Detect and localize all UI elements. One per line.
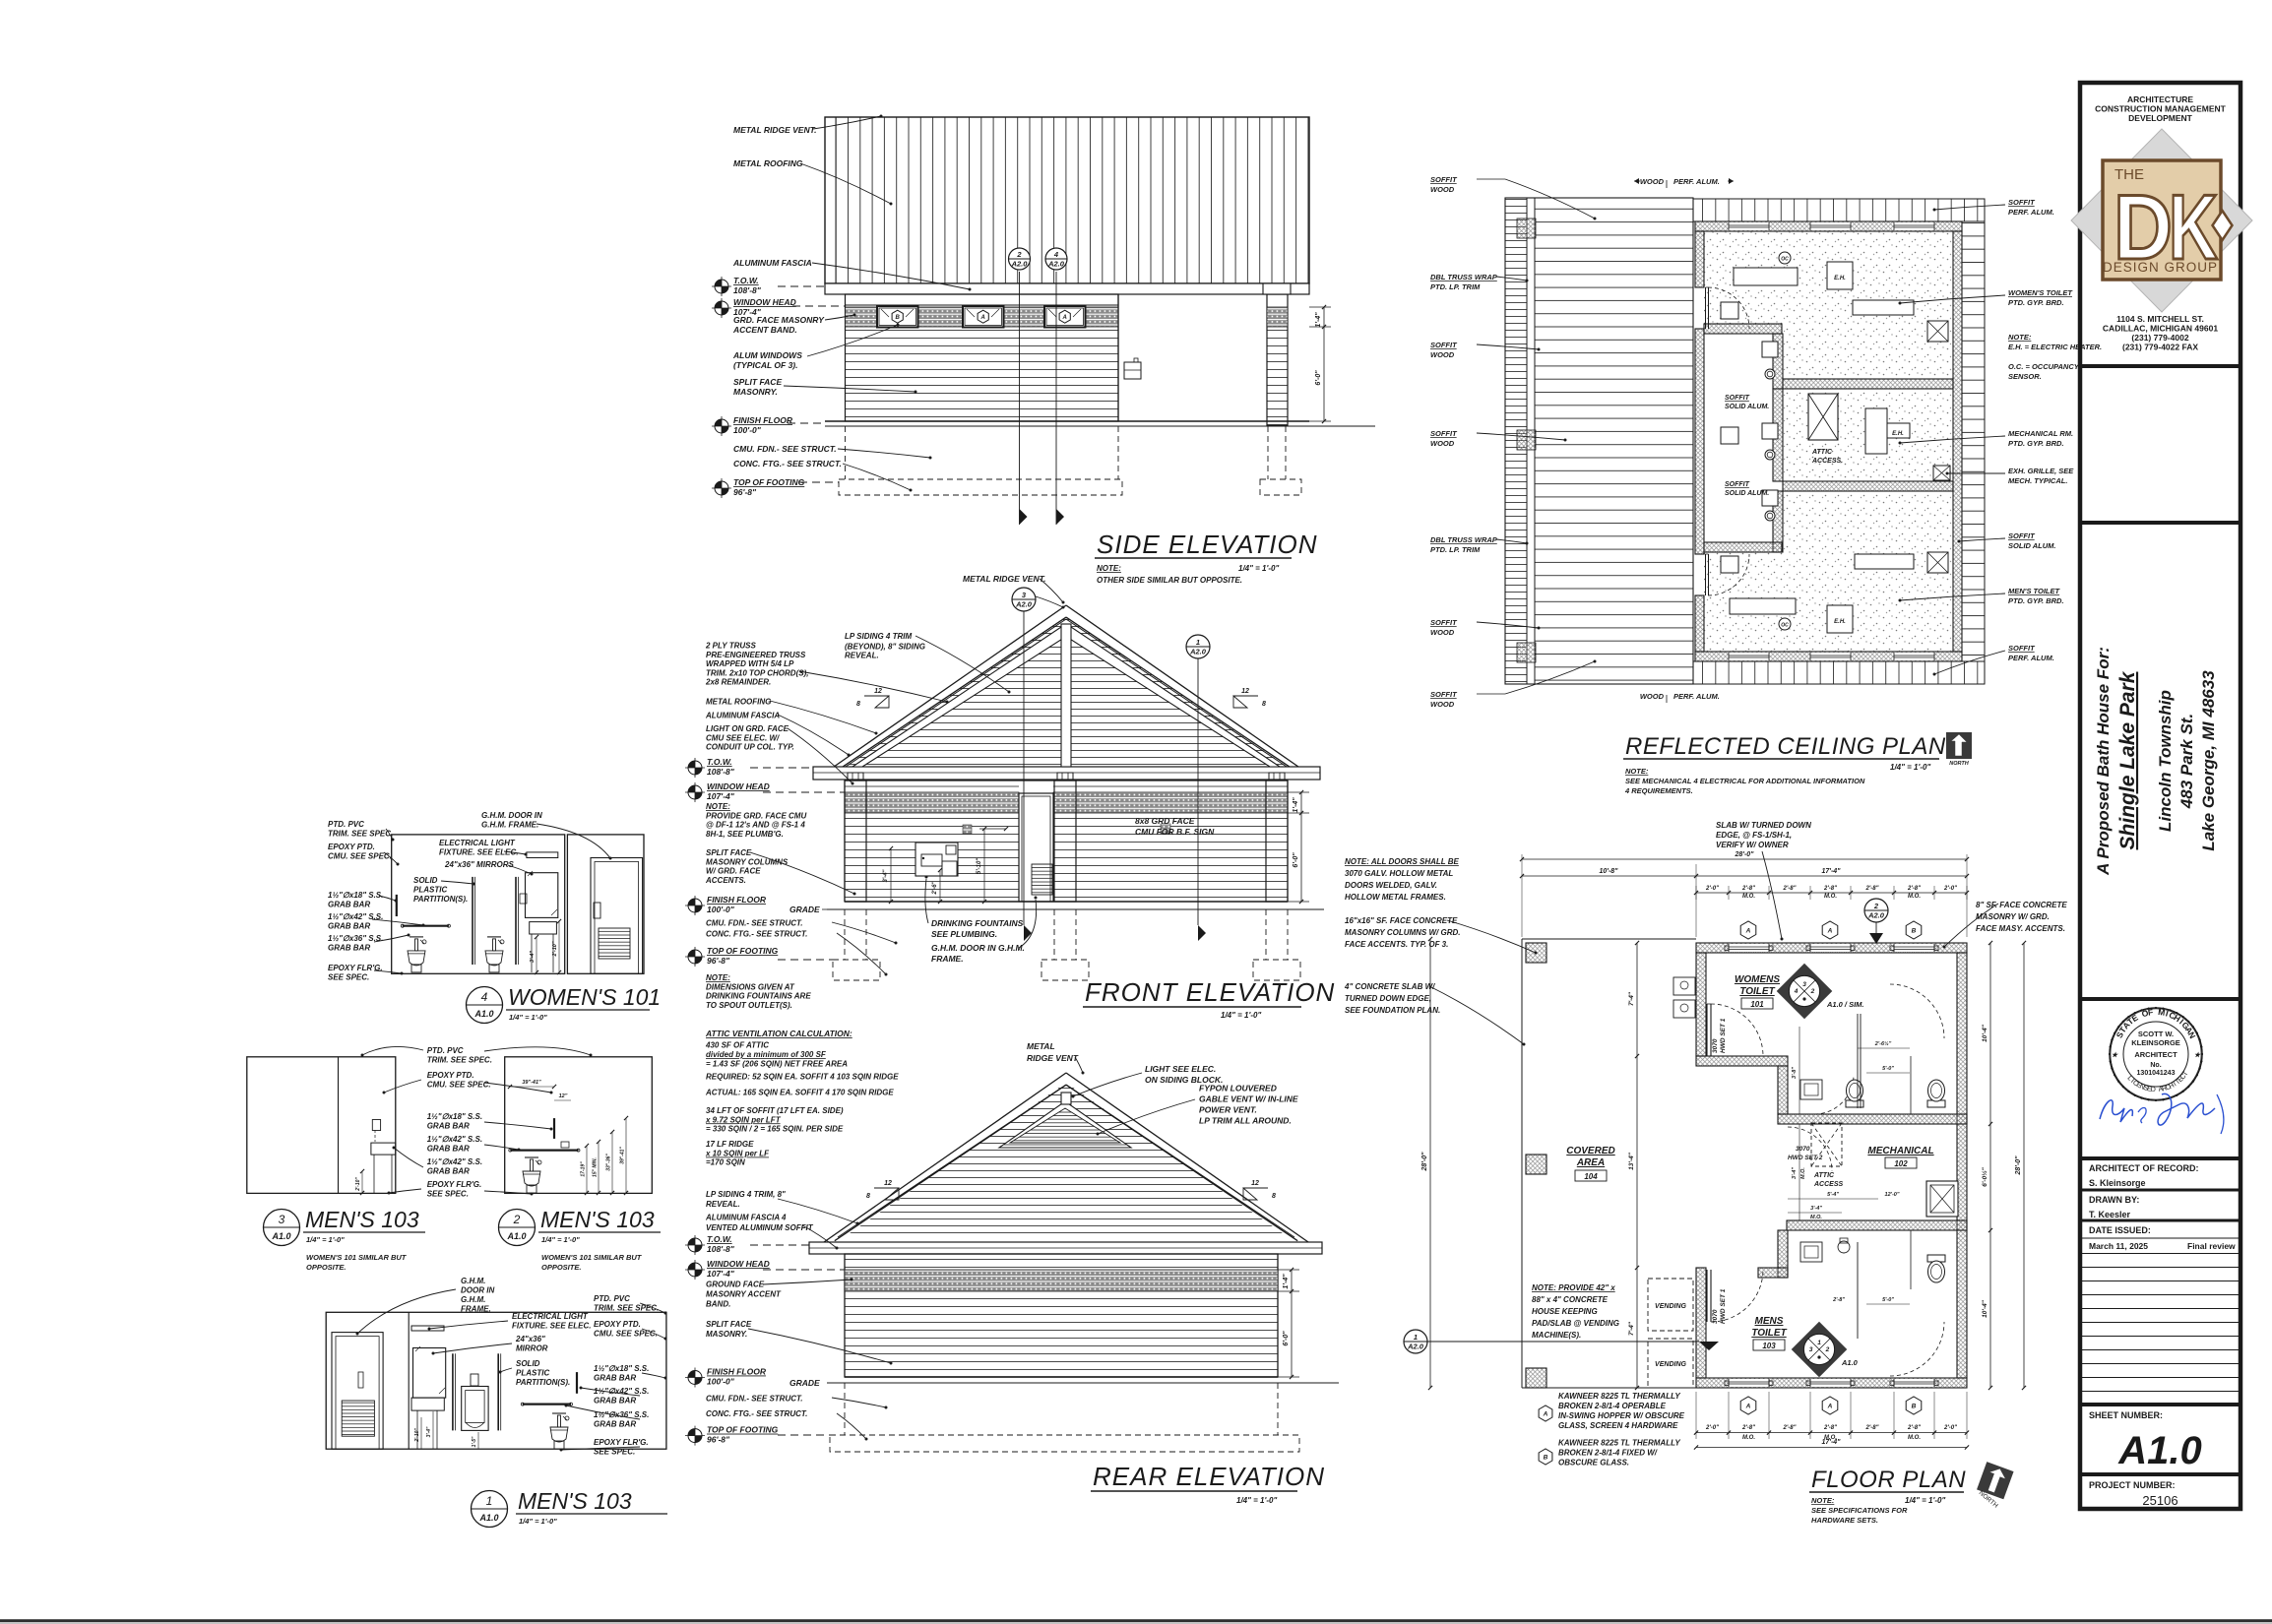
svg-text:MASONRY COLUMNS: MASONRY COLUMNS xyxy=(706,857,789,866)
svg-text:(231) 779-4022 FAX: (231) 779-4022 FAX xyxy=(2122,343,2198,352)
svg-text:DRAWN BY:: DRAWN BY: xyxy=(2089,1195,2139,1205)
svg-text:483 Park St.: 483 Park St. xyxy=(2177,714,2196,809)
svg-text:B: B xyxy=(1912,927,1917,934)
svg-text:2'-8": 2'-8" xyxy=(1741,886,1755,892)
svg-text:SOLID ALUM.: SOLID ALUM. xyxy=(1725,404,1769,410)
svg-text:2'-10": 2'-10" xyxy=(414,1428,420,1443)
svg-text:PARTITION(S).: PARTITION(S). xyxy=(516,1378,570,1387)
svg-text:FRONT ELEVATION: FRONT ELEVATION xyxy=(1085,977,1335,1007)
svg-text:2: 2 xyxy=(1825,1346,1830,1353)
svg-text:CONDUIT UP COL. TYP.: CONDUIT UP COL. TYP. xyxy=(706,743,794,752)
svg-text:G.H.M.: G.H.M. xyxy=(461,1295,485,1304)
svg-text:PRE-ENGINEERED TRUSS: PRE-ENGINEERED TRUSS xyxy=(706,651,806,659)
svg-text:AREA: AREA xyxy=(1576,1157,1605,1168)
svg-text:MASONRY COLUMNS W/ GRD.: MASONRY COLUMNS W/ GRD. xyxy=(1345,928,1460,937)
svg-text:OC: OC xyxy=(1781,257,1789,263)
svg-text:8: 8 xyxy=(1272,1193,1276,1200)
svg-text:ACTUAL: 165 SQIN EA. SOFFIT 4: ACTUAL: 165 SQIN EA. SOFFIT 4 170 SQIN R… xyxy=(705,1089,894,1097)
svg-text:IN-SWING HOPPER W/ OBSCURE: IN-SWING HOPPER W/ OBSCURE xyxy=(1558,1411,1685,1420)
svg-text:12: 12 xyxy=(874,688,882,695)
svg-text:100'-0": 100'-0" xyxy=(707,905,735,914)
svg-text:GRAB BAR: GRAB BAR xyxy=(594,1420,636,1429)
svg-text:SEE SPEC.: SEE SPEC. xyxy=(328,973,369,982)
svg-text:A2.0: A2.0 xyxy=(1407,1343,1424,1351)
svg-text:CMU. SEE SPEC.: CMU. SEE SPEC. xyxy=(427,1081,491,1090)
svg-text:PTD. LP. TRIM: PTD. LP. TRIM xyxy=(1430,282,1481,291)
svg-text:RIDGE VENT: RIDGE VENT xyxy=(1027,1053,1079,1063)
svg-text:OTHER SIDE SIMILAR BUT OPPOSIT: OTHER SIDE SIMILAR BUT OPPOSITE. xyxy=(1097,576,1242,585)
svg-text:SOFFIT: SOFFIT xyxy=(2008,198,2036,207)
svg-text:SOFFIT: SOFFIT xyxy=(1430,429,1458,438)
svg-text:EDGE, @ FS-1/SH-1,: EDGE, @ FS-1/SH-1, xyxy=(1716,831,1792,840)
svg-text:CADILLAC, MICHIGAN 49601: CADILLAC, MICHIGAN 49601 xyxy=(2103,324,2218,334)
svg-text:12": 12" xyxy=(559,1093,568,1099)
svg-text:NOTE:: NOTE: xyxy=(1811,1496,1835,1505)
svg-text:2: 2 xyxy=(1810,988,1815,995)
svg-text:NOTE:: NOTE: xyxy=(706,802,730,811)
svg-text:D: D xyxy=(2151,1087,2157,1093)
svg-text:1/4" = 1'-0": 1/4" = 1'-0" xyxy=(519,1517,557,1526)
svg-text:KLEINSORGE: KLEINSORGE xyxy=(2131,1038,2180,1047)
svg-text:PAD/SLAB @ VENDING: PAD/SLAB @ VENDING xyxy=(1532,1319,1619,1328)
svg-text:1: 1 xyxy=(1414,1333,1418,1342)
svg-text:TRIM. SEE SPEC.: TRIM. SEE SPEC. xyxy=(594,1304,659,1313)
svg-text:96'-8": 96'-8" xyxy=(707,956,730,966)
svg-text:PTD. GYP. BRD.: PTD. GYP. BRD. xyxy=(2008,596,2064,605)
svg-text:EPOXY FLR'G.: EPOXY FLR'G. xyxy=(594,1438,649,1447)
svg-text:2'-0": 2'-0" xyxy=(1943,886,1957,892)
svg-text:12'-0": 12'-0" xyxy=(1885,1192,1900,1198)
svg-text:2'-8": 2'-8" xyxy=(1823,1425,1837,1431)
svg-text:33"-36": 33"-36" xyxy=(606,1154,612,1171)
svg-text:1: 1 xyxy=(486,1494,493,1508)
svg-text:TURNED DOWN EDGE,: TURNED DOWN EDGE, xyxy=(1345,994,1431,1003)
svg-text:MASONRY W/ GRD.: MASONRY W/ GRD. xyxy=(1976,912,2050,921)
svg-text:6'-0½": 6'-0½" xyxy=(1981,1166,1988,1186)
svg-text:A1.0 / SIM.: A1.0 / SIM. xyxy=(1826,1000,1864,1009)
svg-text:S. Kleinsorge: S. Kleinsorge xyxy=(2089,1178,2146,1188)
svg-text:PERF. ALUM.: PERF. ALUM. xyxy=(2008,208,2054,217)
svg-text:HOLLOW METAL FRAMES.: HOLLOW METAL FRAMES. xyxy=(1345,893,1446,902)
svg-text:2: 2 xyxy=(1016,250,1022,259)
svg-text:5'-0": 5'-0" xyxy=(1882,1066,1894,1072)
svg-text:3: 3 xyxy=(1802,981,1806,988)
svg-text:DEVELOPMENT: DEVELOPMENT xyxy=(2128,113,2193,123)
svg-text:10'-4": 10'-4" xyxy=(1982,1299,1988,1318)
svg-text:FIXTURE. SEE ELEC.: FIXTURE. SEE ELEC. xyxy=(439,848,518,857)
svg-text:1/4" = 1'-0": 1/4" = 1'-0" xyxy=(541,1235,580,1244)
svg-text:REQUIRED: 52 SQIN EA. SOFFIT: REQUIRED: 52 SQIN EA. SOFFIT 4 103 SQIN … xyxy=(706,1073,899,1082)
svg-text:A1.0: A1.0 xyxy=(478,1513,498,1523)
svg-text:1'-4": 1'-4" xyxy=(1293,797,1299,813)
svg-text:1: 1 xyxy=(1817,1340,1821,1346)
svg-text:28'-0": 28'-0" xyxy=(1421,1152,1428,1172)
svg-text:4" CONCRETE SLAB W/: 4" CONCRETE SLAB W/ xyxy=(1344,982,1435,991)
svg-text:3'-4": 3'-4" xyxy=(883,869,889,882)
svg-text:SOFFIT: SOFFIT xyxy=(1725,395,1750,402)
svg-text:WOMEN'S TOILET: WOMEN'S TOILET xyxy=(2008,288,2073,297)
svg-text:REVEAL.: REVEAL. xyxy=(845,652,879,660)
svg-text:SOFFIT: SOFFIT xyxy=(2008,644,2036,653)
svg-text:CMU. SEE SPEC.: CMU. SEE SPEC. xyxy=(328,852,392,861)
svg-text:5'-0": 5'-0" xyxy=(1882,1297,1894,1303)
svg-text:PTD. PVC: PTD. PVC xyxy=(594,1294,630,1303)
svg-text:WOMEN'S 101: WOMEN'S 101 xyxy=(508,984,661,1010)
svg-text:TOP OF FOOTING: TOP OF FOOTING xyxy=(707,946,779,956)
svg-text:W/ GRD. FACE: W/ GRD. FACE xyxy=(706,867,761,876)
svg-text:A: A xyxy=(1827,927,1833,934)
svg-text:EPOXY PTD.: EPOXY PTD. xyxy=(427,1071,474,1080)
svg-text:PTD. GYP. BRD.: PTD. GYP. BRD. xyxy=(2008,298,2064,307)
svg-text:WOOD: WOOD xyxy=(1430,628,1455,637)
svg-text:SEE SPEC.: SEE SPEC. xyxy=(594,1448,635,1457)
svg-text:ALUMINUM FASCIA: ALUMINUM FASCIA xyxy=(705,711,780,719)
svg-text:T.O.W.: T.O.W. xyxy=(707,757,732,767)
svg-text:SOLID ALUM.: SOLID ALUM. xyxy=(2008,541,2055,550)
svg-text:104: 104 xyxy=(1584,1172,1598,1181)
svg-text:6'-0": 6'-0" xyxy=(1293,852,1299,868)
svg-text:4: 4 xyxy=(481,990,488,1004)
svg-text:8" SF. FACE CONCRETE: 8" SF. FACE CONCRETE xyxy=(1976,901,2067,909)
svg-text:A: A xyxy=(980,315,985,321)
svg-text:FRAME.: FRAME. xyxy=(931,954,964,964)
svg-text:4: 4 xyxy=(1794,988,1799,995)
svg-text:2x8 REMAINDER.: 2x8 REMAINDER. xyxy=(705,678,771,687)
svg-text:SOFFIT: SOFFIT xyxy=(2008,531,2036,540)
svg-text:WOOD: WOOD xyxy=(1430,439,1455,448)
svg-text:28'-0": 28'-0" xyxy=(2015,1156,2022,1176)
svg-text:MEN'S 103: MEN'S 103 xyxy=(540,1207,655,1232)
svg-text:SEE SPECIFICATIONS FOR: SEE SPECIFICATIONS FOR xyxy=(1811,1506,1908,1515)
svg-text:LIGHT SEE ELEC.: LIGHT SEE ELEC. xyxy=(1145,1064,1216,1074)
svg-text:SOFFIT: SOFFIT xyxy=(1430,341,1458,349)
svg-text:2'-8": 2'-8" xyxy=(1741,1425,1755,1431)
svg-text:8: 8 xyxy=(1262,701,1266,708)
svg-text:17-19": 17-19" xyxy=(581,1161,587,1177)
svg-text:VENDING: VENDING xyxy=(1655,1361,1686,1368)
svg-text:FINISH FLOOR: FINISH FLOOR xyxy=(707,895,767,905)
svg-text:CMU. FDN.- SEE STRUCT.: CMU. FDN.- SEE STRUCT. xyxy=(706,919,803,928)
svg-text:1'-4": 1'-4" xyxy=(1283,1274,1290,1289)
svg-text:VENTED ALUMINUM SOFFIT: VENTED ALUMINUM SOFFIT xyxy=(706,1223,814,1232)
svg-text:B: B xyxy=(1912,1403,1917,1409)
svg-text:3'-4": 3'-4" xyxy=(1792,1167,1798,1179)
svg-text:METAL ROOFING: METAL ROOFING xyxy=(733,158,803,168)
svg-text:@ DF-1 12's AND @ FS-1 4: @ DF-1 12's AND @ FS-1 4 xyxy=(706,821,805,830)
svg-text:SEE MECHANICAL 4 ELECTRICAL FO: SEE MECHANICAL 4 ELECTRICAL FOR ADDITION… xyxy=(1625,777,1865,785)
svg-text:OBSCURE GLASS.: OBSCURE GLASS. xyxy=(1558,1458,1629,1467)
svg-text:divided by a minimum of 300 SF: divided by a minimum of 300 SF xyxy=(706,1050,827,1059)
svg-text:OPPOSITE.: OPPOSITE. xyxy=(306,1263,346,1272)
svg-text:2'-0": 2'-0" xyxy=(1943,1425,1957,1431)
svg-text:1/4" = 1'-0": 1/4" = 1'-0" xyxy=(306,1235,345,1244)
svg-text:SLAB W/ TURNED DOWN: SLAB W/ TURNED DOWN xyxy=(1716,821,1811,830)
svg-text:MASONRY ACCENT: MASONRY ACCENT xyxy=(706,1290,782,1299)
svg-text:B: B xyxy=(1544,1454,1548,1461)
svg-text:3'-4": 3'-4" xyxy=(1810,1206,1822,1212)
svg-text:1½"∅x42" S.S.: 1½"∅x42" S.S. xyxy=(427,1135,482,1144)
svg-text:GRAB BAR: GRAB BAR xyxy=(594,1397,636,1405)
svg-text:MACHINE(S).: MACHINE(S). xyxy=(1532,1331,1581,1340)
svg-text:G.H.M. FRAME.: G.H.M. FRAME. xyxy=(481,821,538,830)
svg-text:MENS: MENS xyxy=(1755,1316,1784,1327)
svg-text:SOFFIT: SOFFIT xyxy=(1430,690,1458,699)
svg-text:MEN'S TOILET: MEN'S TOILET xyxy=(2008,587,2060,595)
svg-text:GRAB BAR: GRAB BAR xyxy=(594,1374,636,1383)
svg-text:NORTH: NORTH xyxy=(1949,761,1969,767)
svg-text:3070: 3070 xyxy=(1712,1309,1719,1324)
svg-text:WINDOW HEAD: WINDOW HEAD xyxy=(707,781,770,791)
svg-text:100'-0": 100'-0" xyxy=(733,425,762,435)
svg-text:EPOXY FLR'G.: EPOXY FLR'G. xyxy=(427,1180,482,1189)
svg-text:3070: 3070 xyxy=(1796,1146,1810,1153)
svg-text:E.H.: E.H. xyxy=(1834,276,1846,281)
svg-text:CMU. FDN.- SEE STRUCT.: CMU. FDN.- SEE STRUCT. xyxy=(733,444,837,454)
svg-text:E.H. = ELECTRIC HEATER.: E.H. = ELECTRIC HEATER. xyxy=(2008,343,2102,351)
svg-text:SPLIT FACE: SPLIT FACE xyxy=(706,848,752,857)
svg-text:8H-1, SEE PLUMB'G.: 8H-1, SEE PLUMB'G. xyxy=(706,830,784,839)
svg-text:WOMENS: WOMENS xyxy=(1735,974,1780,985)
svg-text:7'-4": 7'-4" xyxy=(1628,991,1635,1006)
svg-text:6'-0": 6'-0" xyxy=(1315,370,1322,386)
svg-text:PTD. GYP. BRD.: PTD. GYP. BRD. xyxy=(2008,439,2064,448)
svg-text:1½"∅x36" S.S.: 1½"∅x36" S.S. xyxy=(594,1410,649,1419)
svg-text:24"x36" MIRRORS: 24"x36" MIRRORS xyxy=(444,860,514,869)
svg-text:GABLE VENT W/ IN-LINE: GABLE VENT W/ IN-LINE xyxy=(1199,1094,1298,1104)
svg-text:39"-41": 39"-41" xyxy=(620,1147,626,1164)
svg-text:CMU FOR B.F. SIGN: CMU FOR B.F. SIGN xyxy=(1135,827,1215,837)
svg-text:24"x36": 24"x36" xyxy=(515,1335,545,1343)
svg-text:CMU. FDN.- SEE STRUCT.: CMU. FDN.- SEE STRUCT. xyxy=(706,1394,803,1403)
svg-text:A1.0: A1.0 xyxy=(473,1009,493,1019)
svg-text:A: A xyxy=(1745,1403,1751,1409)
svg-text:TO SPOUT OUTLET(S).: TO SPOUT OUTLET(S). xyxy=(706,1001,792,1010)
svg-text:A2.0: A2.0 xyxy=(1011,260,1029,269)
svg-text:MECHANICAL RM.: MECHANICAL RM. xyxy=(2008,429,2073,438)
svg-text:MEN'S 103: MEN'S 103 xyxy=(518,1488,632,1514)
svg-text:EXH. GRILLE, SEE: EXH. GRILLE, SEE xyxy=(2008,467,2074,475)
svg-text:O.C. = OCCUPANCY: O.C. = OCCUPANCY xyxy=(2008,362,2080,371)
svg-text:FACE ACCENTS. TYP. OF 3.: FACE ACCENTS. TYP. OF 3. xyxy=(1345,940,1448,949)
svg-text:3070: 3070 xyxy=(1712,1038,1719,1053)
svg-text:2'-8": 2'-8" xyxy=(1832,1297,1845,1303)
svg-text:OPPOSITE.: OPPOSITE. xyxy=(541,1263,581,1272)
svg-text:WRAPPED WITH 5/4 LP: WRAPPED WITH 5/4 LP xyxy=(706,659,794,668)
svg-text:LP SIDING 4 TRIM: LP SIDING 4 TRIM xyxy=(845,632,912,641)
svg-text:2'-0": 2'-0" xyxy=(1705,1425,1719,1431)
svg-text:NOTE:: NOTE: xyxy=(2008,333,2032,342)
svg-text:(TYPICAL OF 3).: (TYPICAL OF 3). xyxy=(733,360,798,370)
svg-text:108'-8": 108'-8" xyxy=(733,285,762,295)
svg-text:A1.0: A1.0 xyxy=(2117,1429,2202,1472)
svg-text:2: 2 xyxy=(513,1213,521,1226)
svg-text:SPLIT FACE: SPLIT FACE xyxy=(733,377,782,387)
svg-text:M.O.: M.O. xyxy=(1908,894,1921,900)
svg-text:1/4" = 1'-0": 1/4" = 1'-0" xyxy=(1236,1496,1277,1505)
svg-text:CMU SEE ELEC. W/: CMU SEE ELEC. W/ xyxy=(706,733,780,742)
svg-text:17'-4": 17'-4" xyxy=(1822,868,1842,875)
svg-text:March 11, 2025: March 11, 2025 xyxy=(2089,1241,2148,1251)
svg-text:2'-6½": 2'-6½" xyxy=(1874,1040,1892,1047)
svg-text:LP SIDING 4 TRIM, 8": LP SIDING 4 TRIM, 8" xyxy=(706,1190,786,1199)
svg-text:SOLID: SOLID xyxy=(516,1359,540,1368)
svg-text:SIDE ELEVATION: SIDE ELEVATION xyxy=(1097,530,1317,559)
svg-text:TRIM. SEE SPEC.: TRIM. SEE SPEC. xyxy=(427,1056,492,1065)
svg-text:WINDOW HEAD: WINDOW HEAD xyxy=(733,297,796,307)
svg-text:EPOXY PTD.: EPOXY PTD. xyxy=(594,1320,641,1329)
svg-text:=170 SQIN: =170 SQIN xyxy=(706,1158,745,1167)
svg-text:1/4" = 1'-0": 1/4" = 1'-0" xyxy=(1221,1011,1261,1020)
svg-text:3'-4": 3'-4" xyxy=(530,951,536,963)
svg-text:SOLID ALUM.: SOLID ALUM. xyxy=(1725,490,1769,497)
svg-text:1'-5": 1'-5" xyxy=(472,1436,477,1447)
svg-text:DOORS WELDED, GALV.: DOORS WELDED, GALV. xyxy=(1345,881,1437,890)
svg-text:8x8 GRD FACE: 8x8 GRD FACE xyxy=(1135,816,1195,826)
svg-text:PTD. LP. TRIM: PTD. LP. TRIM xyxy=(1430,545,1481,554)
svg-text:107'-4": 107'-4" xyxy=(707,1269,735,1279)
svg-text:6'-0": 6'-0" xyxy=(1283,1331,1290,1346)
svg-text:ACCENT BAND.: ACCENT BAND. xyxy=(732,325,797,335)
svg-text:1: 1 xyxy=(1196,638,1200,647)
svg-text:2'-6": 2'-6" xyxy=(932,881,938,895)
svg-text:M.O.: M.O. xyxy=(1742,894,1755,900)
svg-text:2'-8": 2'-8" xyxy=(1907,1425,1921,1431)
svg-text:SPLIT FACE: SPLIT FACE xyxy=(706,1320,752,1329)
svg-text:ACCESS: ACCESS xyxy=(1813,1181,1844,1188)
svg-text:GRADE: GRADE xyxy=(789,1378,820,1388)
svg-text:PARTITION(S).: PARTITION(S). xyxy=(413,895,468,904)
svg-text:MASONRY.: MASONRY. xyxy=(733,387,778,397)
svg-text:TOP OF FOOTING: TOP OF FOOTING xyxy=(733,477,805,487)
svg-text:GRAB BAR: GRAB BAR xyxy=(427,1167,470,1176)
svg-text:BROKEN 2-8/1-4 FIXED W/: BROKEN 2-8/1-4 FIXED W/ xyxy=(1558,1448,1658,1457)
svg-text:A Proposed Bath House For:: A Proposed Bath House For: xyxy=(2094,647,2113,876)
svg-text:KAWNEER 8225 TL THERMALLY: KAWNEER 8225 TL THERMALLY xyxy=(1558,1392,1680,1401)
svg-text:M.O.: M.O. xyxy=(1824,894,1837,900)
svg-text:103: 103 xyxy=(1762,1342,1776,1350)
svg-text:PLASTIC: PLASTIC xyxy=(413,886,447,895)
svg-text:GLASS, SCREEN 4 HARDWARE: GLASS, SCREEN 4 HARDWARE xyxy=(1558,1421,1678,1430)
svg-text:PTD. PVC: PTD. PVC xyxy=(328,820,364,829)
svg-text:A: A xyxy=(1543,1410,1548,1417)
svg-text:GRAB BAR: GRAB BAR xyxy=(427,1122,470,1131)
svg-text:1'-4": 1'-4" xyxy=(1315,312,1322,328)
svg-text:LP TRIM ALL AROUND.: LP TRIM ALL AROUND. xyxy=(1199,1116,1292,1126)
svg-text:PERF. ALUM.: PERF. ALUM. xyxy=(1673,692,1720,701)
svg-text:DESIGN GROUP: DESIGN GROUP xyxy=(2103,260,2218,275)
svg-text:1/4" = 1'-0": 1/4" = 1'-0" xyxy=(1238,564,1279,573)
svg-text:3'-8": 3'-8" xyxy=(1792,1067,1798,1079)
svg-text:TRIM. 2x10 TOP CHORD(S),: TRIM. 2x10 TOP CHORD(S), xyxy=(706,668,808,677)
svg-text:1½"∅x18" S.S.: 1½"∅x18" S.S. xyxy=(427,1112,482,1121)
svg-text:A1.0: A1.0 xyxy=(271,1231,290,1241)
svg-text:108'-8": 108'-8" xyxy=(707,1244,735,1254)
svg-text:B: B xyxy=(896,315,901,321)
svg-text:MEN'S 103: MEN'S 103 xyxy=(305,1207,419,1232)
svg-text:SEE FOUNDATION PLAN.: SEE FOUNDATION PLAN. xyxy=(1345,1006,1440,1015)
svg-text:POWER VENT.: POWER VENT. xyxy=(1199,1105,1257,1115)
svg-text:LIGHT ON GRD. FACE: LIGHT ON GRD. FACE xyxy=(706,724,789,733)
svg-text:2'-8": 2'-8" xyxy=(1865,1425,1879,1431)
svg-text:12: 12 xyxy=(1241,688,1249,695)
svg-text:107'-4": 107'-4" xyxy=(707,791,735,801)
svg-text:ATTIC: ATTIC xyxy=(1811,449,1833,456)
svg-text:3'-4": 3'-4" xyxy=(426,1426,432,1437)
svg-text:2'-8": 2'-8" xyxy=(1823,886,1837,892)
svg-text:3: 3 xyxy=(1809,1346,1813,1353)
svg-text:REAR ELEVATION: REAR ELEVATION xyxy=(1093,1462,1325,1491)
svg-text:ALUM WINDOWS: ALUM WINDOWS xyxy=(732,350,802,360)
svg-text:ATTIC VENTILATION CALCULATION:: ATTIC VENTILATION CALCULATION: xyxy=(705,1029,852,1038)
svg-text:39"-41": 39"-41" xyxy=(522,1080,541,1086)
svg-text:VENDING: VENDING xyxy=(1655,1303,1686,1310)
svg-text:2'-8": 2'-8" xyxy=(1907,886,1921,892)
svg-text:NOTE: ALL DOORS SHALL BE: NOTE: ALL DOORS SHALL BE xyxy=(1345,857,1460,866)
svg-text:PERF. ALUM.: PERF. ALUM. xyxy=(2008,654,2054,662)
svg-text:WOOD: WOOD xyxy=(1430,350,1455,359)
svg-text:PTD. PVC: PTD. PVC xyxy=(427,1046,464,1055)
svg-text:KAWNEER 8225 TL THERMALLY: KAWNEER 8225 TL THERMALLY xyxy=(1558,1439,1680,1448)
svg-text:E.H.: E.H. xyxy=(1892,431,1904,437)
svg-text:G.H.M. DOOR IN G.H.M.: G.H.M. DOOR IN G.H.M. xyxy=(931,943,1025,953)
svg-text:16"x16" SF. FACE CONCRETE: 16"x16" SF. FACE CONCRETE xyxy=(1345,916,1458,925)
svg-text:FLOOR PLAN: FLOOR PLAN xyxy=(1811,1467,1966,1493)
svg-text:DBL TRUSS WRAP: DBL TRUSS WRAP xyxy=(1430,273,1498,281)
svg-text:BAND.: BAND. xyxy=(706,1300,730,1309)
svg-text:28'-0": 28'-0" xyxy=(1735,851,1755,858)
svg-text:TOILET: TOILET xyxy=(1751,1328,1787,1339)
svg-text:WOOD: WOOD xyxy=(1430,700,1455,709)
svg-text:108'-8": 108'-8" xyxy=(707,767,735,777)
svg-text:12: 12 xyxy=(1251,1180,1259,1187)
svg-text:2'-10": 2'-10" xyxy=(552,941,558,957)
svg-text:EPOXY PTD.: EPOXY PTD. xyxy=(328,843,375,851)
svg-text:SEE SPEC.: SEE SPEC. xyxy=(427,1190,469,1199)
svg-text:3070 GALV. HOLLOW METAL: 3070 GALV. HOLLOW METAL xyxy=(1345,869,1453,878)
svg-text:E.H.: E.H. xyxy=(1834,619,1846,625)
svg-text:ARCHITECT: ARCHITECT xyxy=(2134,1050,2177,1059)
svg-text:WINDOW HEAD: WINDOW HEAD xyxy=(707,1259,770,1269)
svg-text:DOOR IN: DOOR IN xyxy=(461,1286,494,1295)
svg-text:SENSOR.: SENSOR. xyxy=(2008,372,2042,381)
svg-text:SOFFIT: SOFFIT xyxy=(1430,175,1458,184)
svg-text:PROJECT NUMBER:: PROJECT NUMBER: xyxy=(2089,1480,2176,1490)
svg-text:GRD. FACE MASONRY: GRD. FACE MASONRY xyxy=(733,315,825,325)
svg-text:PLASTIC: PLASTIC xyxy=(516,1369,549,1378)
svg-text:MECHANICAL: MECHANICAL xyxy=(1867,1146,1933,1156)
svg-text:GRAB BAR: GRAB BAR xyxy=(427,1145,470,1154)
svg-text:CONC. FTG.- SEE STRUCT.: CONC. FTG.- SEE STRUCT. xyxy=(706,929,807,938)
svg-text:BROKEN 2-8/1-4 OPERABLE: BROKEN 2-8/1-4 OPERABLE xyxy=(1558,1402,1667,1410)
svg-text:CONC. FTG.- SEE STRUCT.: CONC. FTG.- SEE STRUCT. xyxy=(733,459,842,468)
svg-text:WOOD: WOOD xyxy=(1640,692,1665,701)
svg-text:SOFFIT: SOFFIT xyxy=(1430,618,1458,627)
svg-text:17'-4": 17'-4" xyxy=(1822,1439,1842,1446)
svg-text:A2.0: A2.0 xyxy=(1867,911,1885,920)
svg-text:EPOXY FLR'G.: EPOXY FLR'G. xyxy=(328,964,383,972)
svg-text:3: 3 xyxy=(279,1213,285,1226)
svg-text:102: 102 xyxy=(1894,1159,1908,1168)
svg-text:MASONRY.: MASONRY. xyxy=(706,1330,747,1339)
svg-text:MECH. TYPICAL.: MECH. TYPICAL. xyxy=(2008,476,2067,485)
svg-text:GRADE: GRADE xyxy=(789,905,820,914)
svg-text:TOILET: TOILET xyxy=(1739,986,1775,997)
svg-text:GROUND FACE: GROUND FACE xyxy=(706,1280,765,1288)
svg-text:TOP OF FOOTING: TOP OF FOOTING xyxy=(707,1425,779,1435)
svg-text:101: 101 xyxy=(1750,1000,1764,1009)
svg-text:HWD SET 2: HWD SET 2 xyxy=(1788,1155,1823,1161)
svg-text:SOFFIT: SOFFIT xyxy=(1725,481,1750,488)
